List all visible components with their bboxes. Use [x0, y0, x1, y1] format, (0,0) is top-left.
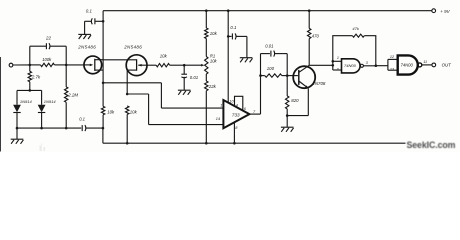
svg-text:22k: 22k: [208, 84, 217, 89]
node R4 bus junction: [102, 127, 105, 130]
terminal input: [9, 63, 13, 67]
wire rail to op-amp pin 10: [227, 11, 229, 103]
node U1 pin8 bus junction: [233, 142, 236, 145]
wire U1 output: [249, 113, 260, 115]
capacitor C1 22: [45, 43, 47, 49]
wire C1 left leg: [29, 46, 31, 65]
wire Q3 emitter: [307, 88, 309, 115]
resistor R9 100: [261, 75, 265, 77]
resistor R12 47k feedback: [333, 36, 353, 62]
resistor R3 2.2M: [65, 65, 67, 87]
nand gate U2b 74N00: [398, 55, 418, 74]
wire +9V supply rail: [103, 10, 432, 12]
resistor R7 10k horizontal: [156, 64, 169, 67]
svg-text:1N914: 1N914: [20, 99, 33, 104]
svg-text:0.1: 0.1: [79, 117, 85, 122]
svg-text:OUT: OUT: [442, 62, 452, 67]
resistor R8 22k: [205, 74, 207, 81]
wire Q2 gate node to op-amp input: [127, 93, 148, 95]
svg-text:2N5486: 2N5486: [77, 44, 96, 49]
node R3 bus junction: [65, 127, 68, 130]
wire Q3 collector: [308, 39, 310, 66]
svg-text:2.2M: 2.2M: [67, 92, 78, 97]
resistor R2 100k: [30, 64, 41, 66]
diode D1 1N914: [16, 90, 18, 104]
watermark: [407, 140, 456, 150]
resistor R11 820: [286, 76, 288, 96]
node B gate node: [65, 64, 68, 67]
svg-text:14: 14: [216, 116, 221, 121]
resistor R4 10k: [102, 83, 104, 107]
wire Q3 collector to U2a inputs: [309, 64, 333, 66]
svg-text:7: 7: [253, 109, 256, 114]
svg-text:0.01: 0.01: [265, 43, 274, 48]
wire U2a input tie: [332, 61, 334, 70]
wire U2a input stubs: [333, 60, 342, 62]
node D1 bus junction: [16, 127, 19, 130]
node Q1 source junction: [102, 82, 105, 85]
svg-text:10k: 10k: [160, 54, 168, 59]
svg-text:0.1: 0.1: [230, 25, 237, 30]
resistor R10 470: [308, 28, 311, 38]
svg-text:1: 1: [337, 56, 339, 60]
svg-text:100: 100: [267, 66, 275, 71]
transistor Q1 2N5486: [84, 56, 102, 74]
wire C2 to ground: [84, 21, 86, 34]
node U2a input junction: [332, 64, 335, 67]
wire main ground bus: [103, 142, 406, 144]
svg-text:10k: 10k: [210, 31, 218, 36]
wire U2b input tie: [387, 59, 389, 70]
node rail junction at R10: [308, 9, 311, 12]
wire Q2 source lead: [127, 69, 136, 71]
ground below C2: [78, 33, 91, 35]
wire C4 to ground: [246, 36, 248, 57]
capacitor C5 0.01: [270, 51, 272, 57]
svg-text:4: 4: [236, 104, 238, 108]
scan edge artifact: [0, 57, 2, 152]
svg-text:22: 22: [45, 35, 51, 40]
svg-text:SeekIC.com: SeekIC.com: [407, 140, 456, 150]
node rail junction at R5: [205, 9, 208, 12]
svg-text:10k: 10k: [107, 109, 115, 114]
nand gate U2a 74N00: [342, 59, 361, 73]
svg-text:12: 12: [390, 55, 394, 59]
wire C5 right leg: [275, 53, 287, 55]
capacitor C4 0.1: [228, 35, 231, 37]
wire U2b input stubs: [388, 58, 398, 60]
node rail junction at bypass line: [227, 9, 230, 12]
svg-text:6: 6: [244, 107, 246, 111]
svg-text:2.7k: 2.7k: [31, 74, 41, 79]
wire rail drop to Q1 drain: [102, 11, 104, 83]
wire Q1 source to op-amp input: [103, 82, 161, 84]
svg-text:11: 11: [423, 60, 427, 64]
wire U2a output: [364, 65, 376, 67]
ground lower left: [11, 138, 24, 140]
capacitor C3 0.01: [183, 65, 185, 74]
node emitter junction: [286, 114, 289, 117]
ground below R11: [281, 126, 294, 128]
svg-text:8: 8: [235, 125, 238, 130]
node U1 output junction: [259, 74, 262, 77]
svg-text:+ 9V: + 9V: [440, 9, 450, 14]
svg-text:470: 470: [312, 34, 320, 39]
svg-text:10k: 10k: [130, 109, 138, 114]
node C2 tap on drain line: [102, 20, 105, 23]
svg-text:74N00: 74N00: [344, 63, 357, 68]
svg-text:3: 3: [366, 61, 369, 65]
svg-text:10k: 10k: [210, 58, 218, 63]
svg-text:74N00: 74N00: [401, 62, 414, 67]
node D2 bus junction: [40, 127, 43, 130]
node U2a top input junction: [332, 60, 335, 63]
terminal +9V: [432, 9, 436, 13]
svg-text:2N708: 2N708: [311, 81, 325, 86]
capacitor C6 0.1 in bus: [81, 125, 83, 131]
wire Q1 drain to Q2 drain: [103, 59, 137, 61]
resistor R1a 2.7k: [29, 65, 31, 71]
ground below C3: [178, 89, 191, 91]
node diode bracket junction: [29, 89, 32, 92]
wire wiper arm: [184, 64, 201, 66]
node U2a output junction: [375, 64, 378, 67]
gain-set strap on U1: [235, 96, 243, 110]
terminal OUT: [432, 63, 436, 67]
svg-text:10: 10: [229, 99, 234, 104]
wire diode bracket: [17, 89, 42, 91]
wire left bus drop: [102, 128, 104, 143]
svg-text:0.1: 0.1: [86, 8, 93, 13]
resistor R6 10k: [126, 106, 129, 115]
diode D2 1N914: [41, 90, 43, 104]
svg-text:733: 733: [232, 112, 240, 117]
node R8 bus junction: [205, 142, 208, 145]
svg-text:0.01: 0.01: [190, 75, 199, 80]
node R6 bus junction: [126, 142, 129, 145]
wire bus stub to ground: [16, 128, 18, 139]
potentiometer R1 10k: [205, 57, 208, 75]
wire U2b output: [422, 64, 432, 66]
wire base node to Q3: [287, 75, 298, 77]
wire C2 to drain line: [95, 20, 103, 22]
svg-text:1: 1: [220, 102, 222, 107]
wire C5 left leg: [260, 54, 262, 76]
wire C1 right leg: [50, 45, 67, 47]
wire to ground below R11: [286, 116, 288, 127]
capacitor C2 0.1: [94, 18, 96, 24]
svg-text:2N5486: 2N5486: [123, 44, 142, 49]
svg-text:47k: 47k: [352, 26, 359, 31]
svg-text:13: 13: [390, 68, 395, 72]
wire left ground bus: [17, 127, 81, 129]
svg-text:1N914: 1N914: [44, 99, 57, 104]
node gate bias junction: [183, 64, 186, 67]
node bypass junction: [227, 35, 230, 38]
wire gate node to Q1 gate: [66, 64, 84, 66]
node Q3 base junction: [286, 74, 289, 77]
node A input junction: [29, 64, 32, 67]
svg-text:820: 820: [291, 98, 299, 103]
wire input to node A: [13, 64, 30, 66]
node Q2 gate return junction: [126, 93, 129, 96]
resistor R5 10k: [205, 11, 207, 28]
transistor Q3 2N708: [293, 66, 315, 88]
op-amp U1 733: [223, 100, 249, 128]
svg-text:2: 2: [336, 68, 339, 72]
transistor Q2 2N5486: [126, 55, 147, 76]
wire to U2b inputs: [376, 65, 388, 67]
wire U1 pin 8 to ground bus: [233, 123, 235, 144]
svg-text:100k: 100k: [42, 57, 52, 62]
ground below C4: [240, 57, 253, 59]
